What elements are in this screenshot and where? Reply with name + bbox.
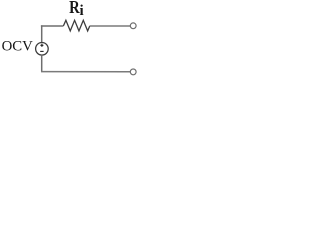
wire bottom horizontal (41, 71, 130, 73)
svg-text:OCV: OCV (2, 39, 34, 55)
voltage source OCV circle (36, 43, 49, 56)
wire top-left horizontal (41, 25, 64, 27)
wire top-right horizontal (90, 25, 130, 27)
terminal top-right open circle (130, 23, 136, 29)
plus sign inside source (40, 44, 43, 47)
minus sign inside source (40, 50, 43, 52)
svg-text:R: R (69, 0, 80, 17)
resistor Ri zigzag (63, 20, 89, 31)
svg-text:i: i (80, 3, 84, 19)
wire left vertical lower (41, 55, 43, 72)
terminal bottom-right open circle (130, 69, 136, 75)
wire left vertical upper (41, 25, 43, 42)
